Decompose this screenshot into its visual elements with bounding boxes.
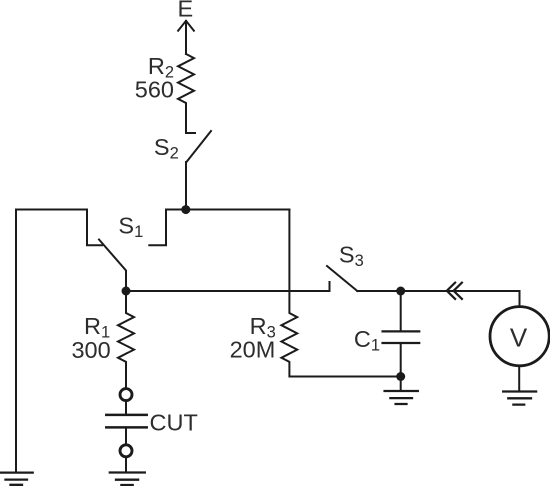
svg-text:560: 560 (135, 77, 174, 103)
svg-text:S2: S2 (154, 134, 179, 163)
svg-text:S1: S1 (118, 213, 143, 242)
svg-text:300: 300 (71, 337, 110, 363)
svg-text:V: V (510, 322, 528, 352)
svg-text:CUT: CUT (150, 409, 198, 435)
svg-text:20M: 20M (230, 336, 276, 362)
svg-text:E: E (177, 0, 193, 22)
svg-text:C1: C1 (354, 326, 380, 355)
svg-text:S3: S3 (339, 242, 364, 271)
